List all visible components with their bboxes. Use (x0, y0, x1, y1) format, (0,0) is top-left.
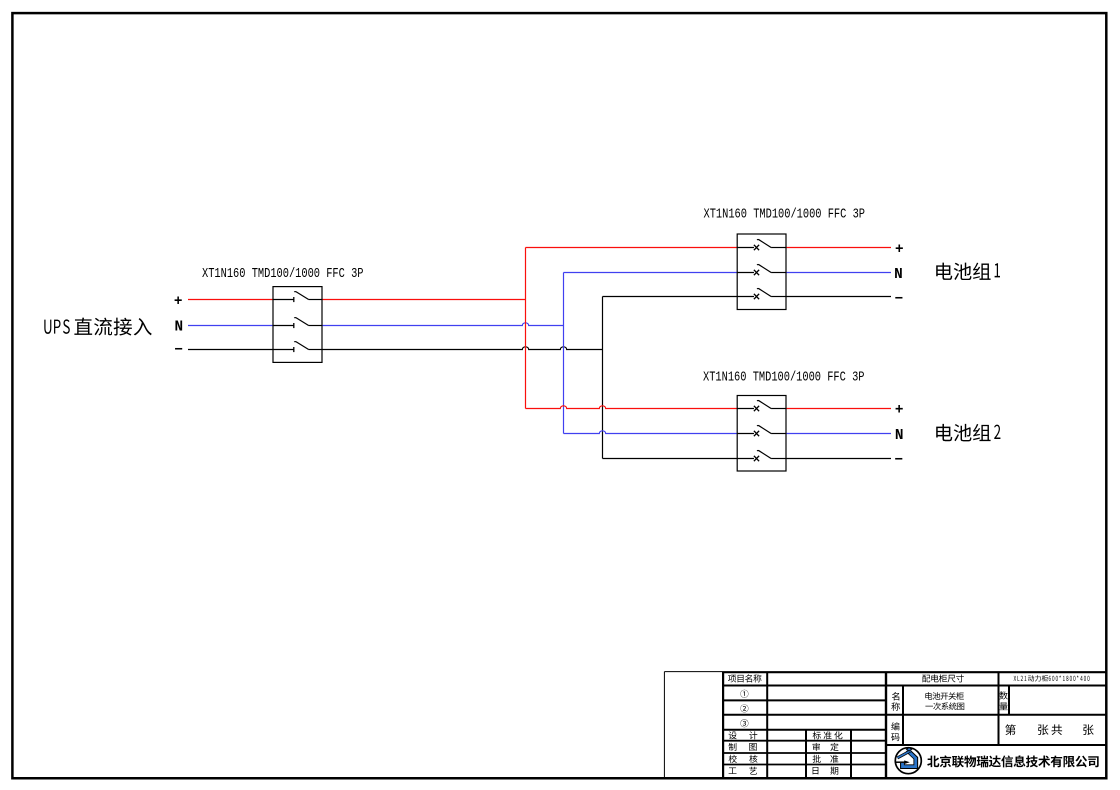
node label: 电池组2 (battery group 2) (936, 424, 952, 441)
title block grid (663, 672, 665, 778)
svg-text:XT1N160 TMD100/1000 FFC 3P: XT1N160 TMD100/1000 FFC 3P (704, 206, 865, 222)
wire: red riser node A (525, 248, 527, 409)
title cell: 名称 (892, 692, 899, 700)
svg-text:N: N (894, 267, 903, 283)
node label: UPS直流接入 (UPS DC input) (44, 320, 51, 334)
title cell: 批准 (813, 755, 821, 763)
breaker QF2 XT1N160 TMD100/1000 FFC 3P (737, 234, 786, 310)
QF2 pole at y=272.5 (737, 272, 754, 274)
wire: UPS N input (blue) (188, 325, 273, 327)
wire: + branch to QF2 (red) (526, 247, 738, 249)
svg-text:XT1N160 TMD100/1000 FFC 3P: XT1N160 TMD100/1000 FFC 3P (202, 266, 363, 282)
wire: - branch to QF3 (black) (603, 458, 738, 460)
QF1 pole at y=299.5 (273, 299, 294, 301)
svg-text:N: N (175, 320, 184, 336)
svg-text:−: − (174, 343, 183, 359)
title cell: 一次系统图 (925, 705, 933, 708)
svg-text:XT1N160 TMD100/1000 FFC 3P: XT1N160 TMD100/1000 FFC 3P (703, 369, 864, 385)
wire: blue riser node B (563, 273, 565, 434)
wire: QF2 + output (red) (786, 247, 891, 249)
wire: black riser node C (602, 297, 604, 459)
wire: - branch to QF2 (black) (603, 296, 738, 298)
wire: + branch to QF3 (red), hops over blue+black risers (526, 406, 738, 409)
wire: QF3 - output (black) (786, 458, 891, 460)
QF1 pole at y=349.5 (273, 349, 294, 351)
svg-text:−: − (895, 291, 904, 307)
title cell: 日期 (813, 767, 819, 774)
title cell: XL21动力柜600*1800*400 (1014, 676, 1017, 681)
QF3 pole at y=433.5 (737, 433, 754, 435)
title cell: 标准化 (813, 731, 821, 739)
wire: N branch to QF3 (blue), hop over black riser (564, 431, 738, 434)
title cell: 第 张 共 张 (1005, 724, 1016, 735)
wire: QF3 N output (blue) (786, 433, 891, 435)
svg-text:N: N (895, 428, 904, 444)
wire: N branch to QF2 (blue) (564, 272, 738, 274)
wire: QF2 - output (black) (786, 296, 891, 298)
title cell: ③ (740, 719, 748, 727)
QF3 pole at y=408.5 (737, 408, 754, 410)
svg-text:+: + (174, 294, 183, 310)
company name: 北京联物瑞达信息技术有限公司 (927, 756, 939, 767)
breaker QF1 XT1N160 TMD100/1000 FFC 3P (273, 287, 322, 363)
wire: - bus QF1 out to node (black), hops over red+blue risers (322, 347, 603, 350)
wire: UPS + input (red) (188, 299, 273, 301)
svg-text:+: + (895, 242, 904, 258)
title cell: 工艺 (729, 767, 737, 773)
wire: QF2 N output (blue) (786, 272, 891, 274)
title cell: ① (740, 690, 748, 698)
title cell: 项目名称 (728, 675, 736, 683)
QF1 pole at y=325.5 (273, 325, 294, 327)
node label: 电池组1 (battery group 1) (936, 263, 952, 280)
title cell: 配电柜尺寸 (922, 675, 930, 683)
QF3 pole at y=458.5 (737, 458, 754, 460)
title cell: 制图 (729, 743, 737, 751)
QF2 pole at y=247.5 (737, 247, 754, 249)
wire: + bus QF1 out to node (red) (322, 299, 526, 301)
breaker QF3 XT1N160 TMD100/1000 FFC 3P (737, 396, 786, 472)
title cell: 设计 (729, 731, 737, 739)
title cell: ② (740, 704, 748, 712)
QF2 pole at y=296.5 (737, 296, 754, 298)
svg-text:−: − (894, 452, 903, 468)
wire: N bus QF1 out to node (blue), hop over red riser (322, 323, 564, 326)
company logo (895, 748, 921, 774)
wire: UPS - input (black) (188, 349, 273, 351)
svg-text:+: + (895, 403, 904, 419)
title cell: 编码 (891, 722, 899, 730)
title cell: 数量 (999, 691, 1007, 699)
title cell: 审定 (813, 743, 820, 751)
title cell: 校核 (729, 755, 737, 763)
wire: QF3 + output (red) (786, 408, 891, 410)
title cell: 电池开关柜 (925, 692, 932, 699)
